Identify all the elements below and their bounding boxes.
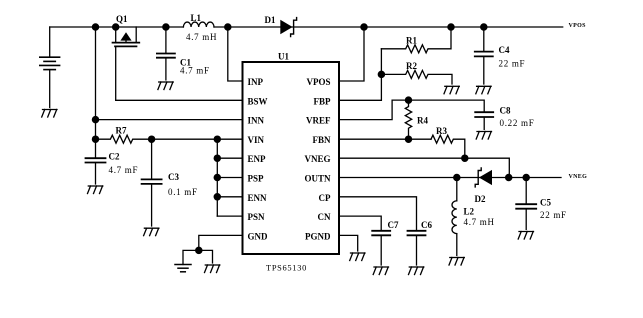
- ground (battery): [42, 110, 57, 118]
- wire VREF: [339, 100, 484, 120]
- capacitor C7: [372, 231, 390, 265]
- node R2 tap junction: [378, 71, 384, 77]
- svg-text:C3: C3: [168, 172, 179, 182]
- wire top rail right: [214, 26, 563, 28]
- capacitor C3: [142, 139, 162, 226]
- ground (PGND): [350, 253, 365, 261]
- svg-text:FBN: FBN: [313, 135, 332, 145]
- resistor R3: [431, 135, 465, 158]
- resistor R4: [405, 100, 411, 139]
- wire FBP: [339, 49, 381, 101]
- node ENP junction: [214, 155, 220, 161]
- svg-text:C7: C7: [388, 220, 399, 230]
- transistor Q1: [113, 27, 140, 100]
- node GND junction: [196, 247, 202, 253]
- wire top rail left: [50, 26, 184, 28]
- svg-text:VIN: VIN: [248, 135, 265, 145]
- ground (C1): [158, 82, 173, 90]
- svg-text:ENN: ENN: [248, 193, 268, 203]
- svg-text:4.7 mH: 4.7 mH: [186, 32, 217, 42]
- svg-text:VPOS: VPOS: [569, 23, 587, 29]
- svg-text:R1: R1: [406, 36, 417, 46]
- resistor R7: [96, 135, 152, 143]
- ground (R2): [444, 86, 459, 94]
- capacitor C1: [157, 27, 175, 80]
- wire BSW: [116, 99, 243, 101]
- wire FBN: [339, 138, 431, 140]
- svg-text:22 mF: 22 mF: [499, 59, 526, 69]
- resistor R1: [381, 27, 451, 53]
- node VIN/R7 junction: [92, 136, 98, 142]
- capacitor C2: [86, 158, 106, 184]
- resistor R2: [381, 70, 452, 84]
- wire CN: [339, 216, 381, 231]
- battery V1: [40, 27, 60, 108]
- node ENP strap junction: [214, 136, 220, 142]
- wire ENP/PSP/ENN/PSN strap: [217, 139, 242, 216]
- svg-text:4.7 mF: 4.7 mF: [109, 165, 139, 175]
- wire VPOS pin: [339, 27, 364, 81]
- svg-text:OUTN: OUTN: [304, 174, 331, 184]
- node C4 junction: [481, 24, 487, 30]
- svg-text:C6: C6: [421, 220, 432, 230]
- svg-text:GND: GND: [248, 231, 269, 241]
- inductor L2: [452, 178, 457, 256]
- svg-text:VREF: VREF: [306, 116, 331, 126]
- ground (GND pin): [205, 265, 220, 273]
- node switch/INP junction: [225, 24, 231, 30]
- svg-text:D2: D2: [475, 194, 486, 204]
- svg-text:C5: C5: [540, 198, 551, 208]
- node INN junction: [92, 117, 98, 123]
- ground (L2): [449, 258, 464, 266]
- node C3 junction: [149, 136, 155, 142]
- capacitor C6: [408, 231, 426, 265]
- inductor L1: [183, 22, 214, 27]
- node R1 junction: [448, 24, 454, 30]
- svg-text:L1: L1: [191, 13, 202, 23]
- node R4 bottom junction: [405, 136, 411, 142]
- wire INP: [228, 27, 243, 81]
- svg-text:D1: D1: [265, 15, 276, 25]
- svg-text:PSP: PSP: [248, 174, 265, 184]
- diode D2: [475, 168, 492, 187]
- wire to signal ground: [199, 250, 213, 263]
- svg-text:4.7 mH: 4.7 mH: [464, 217, 495, 227]
- svg-text:C8: C8: [500, 106, 511, 116]
- node VBAT junction: [92, 24, 98, 30]
- node R4 top junction: [405, 97, 411, 103]
- wire VNEG pin: [339, 158, 509, 177]
- ground (C5): [518, 232, 533, 240]
- svg-text:ENP: ENP: [248, 154, 267, 164]
- node L2 junction: [454, 174, 460, 180]
- svg-text:VNEG: VNEG: [569, 174, 588, 180]
- svg-text:R7: R7: [116, 126, 127, 136]
- capacitor C8: [475, 112, 493, 129]
- svg-text:INN: INN: [248, 116, 265, 126]
- capacitor C5: [516, 178, 536, 230]
- node C5 junction: [523, 174, 529, 180]
- svg-text:VPOS: VPOS: [306, 77, 330, 87]
- wire to earth ground: [183, 250, 199, 264]
- svg-text:VNEG: VNEG: [304, 154, 330, 164]
- capacitor C4: [475, 27, 493, 84]
- svg-text:PSN: PSN: [248, 212, 266, 222]
- svg-text:CN: CN: [318, 212, 331, 222]
- svg-text:CP: CP: [319, 193, 331, 203]
- ground (C4): [476, 86, 491, 94]
- svg-text:TPS65130: TPS65130: [266, 264, 307, 273]
- svg-text:R4: R4: [417, 116, 428, 126]
- ground (C8): [476, 132, 491, 140]
- svg-text:Q1: Q1: [116, 14, 128, 24]
- svg-text:R2: R2: [406, 61, 417, 71]
- ground (C6): [409, 267, 424, 275]
- svg-text:FBP: FBP: [314, 96, 332, 106]
- svg-text:INP: INP: [248, 77, 264, 87]
- wire PGND: [339, 235, 358, 251]
- wire INN vertical: [95, 27, 97, 158]
- svg-text:4.7 mF: 4.7 mF: [180, 66, 210, 76]
- wire OUTN: [339, 177, 561, 179]
- ground (C7): [373, 267, 388, 275]
- svg-text:0.1 mF: 0.1 mF: [168, 187, 198, 197]
- svg-text:C2: C2: [109, 152, 120, 162]
- node Q1 drain junction: [113, 24, 119, 30]
- ground (C3): [144, 228, 159, 236]
- svg-text:C4: C4: [499, 45, 510, 55]
- diode D1: [280, 18, 296, 37]
- svg-text:BSW: BSW: [248, 96, 268, 106]
- node D2/VNEG junction: [506, 174, 512, 180]
- svg-text:0.22 mF: 0.22 mF: [500, 118, 535, 128]
- node VPOS-pin junction: [361, 24, 367, 30]
- wire VIN: [152, 138, 243, 140]
- svg-text:R3: R3: [436, 126, 447, 136]
- svg-text:22 mF: 22 mF: [540, 210, 567, 220]
- svg-text:L2: L2: [464, 207, 475, 217]
- node PSP junction: [214, 174, 220, 180]
- earth ground: [175, 265, 191, 272]
- node R3 junction: [462, 155, 468, 161]
- node C1/L1 junction: [163, 24, 169, 30]
- svg-text:PGND: PGND: [305, 231, 331, 241]
- op-amp U1 chip body: [243, 62, 340, 254]
- svg-text:U1: U1: [278, 52, 289, 62]
- node ENN junction: [214, 194, 220, 200]
- wire GND: [199, 235, 243, 250]
- wire CP: [339, 197, 417, 231]
- wire INN: [96, 119, 243, 121]
- ground (C2): [88, 186, 103, 194]
